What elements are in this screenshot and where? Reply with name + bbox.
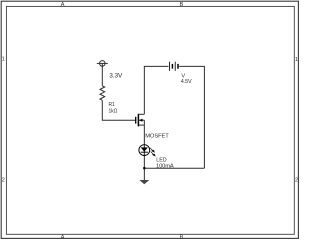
power supply node 3.3V [97,61,108,86]
svg-text:1: 1 [2,56,5,62]
MOSFET channel bar [137,114,139,127]
svg-text:2: 2 [295,177,298,183]
resistor R1 zigzag [100,86,105,101]
battery plate short 1 [171,64,173,69]
svg-text:100mA: 100mA [156,163,174,169]
wire top rail left of battery [144,65,169,67]
MOSFET source stub [138,119,144,121]
wire drain up to top rail [143,66,145,114]
ground [139,180,149,184]
wire resistor to gate [102,101,135,121]
LED cathode bar [141,151,148,153]
wire top rail right of battery [179,65,204,67]
battery plate long 2 [174,62,176,71]
LED triangle [141,147,148,151]
svg-text:2: 2 [2,177,5,183]
battery plate short 2 [177,64,179,69]
junction node dot [143,167,145,169]
wire right rail down [203,66,205,168]
LED circle [139,145,150,156]
svg-text:3.3V: 3.3V [109,73,123,80]
battery plate long 1 [169,62,171,71]
wire MOSFET source down through LED to ground [143,120,145,180]
svg-text:A: A [61,2,65,8]
svg-text:4.5V: 4.5V [181,79,192,85]
svg-text:1kΩ: 1kΩ [109,109,118,115]
MOSFET body arrow [139,119,142,122]
MOSFET bottom stub [138,124,144,126]
svg-text:A: A [61,234,65,240]
LED emission arrow 1 [150,148,155,156]
svg-text:B: B [180,234,184,240]
svg-text:MOSFET: MOSFET [145,133,169,139]
MOSFET gate bar [135,117,137,124]
svg-text:1: 1 [295,57,298,63]
svg-text:B: B [180,2,184,8]
svg-text:R1: R1 [109,102,116,108]
wire bottom return [144,167,204,169]
MOSFET drain stub [138,113,144,115]
LED emission arrow 2 [151,152,154,155]
